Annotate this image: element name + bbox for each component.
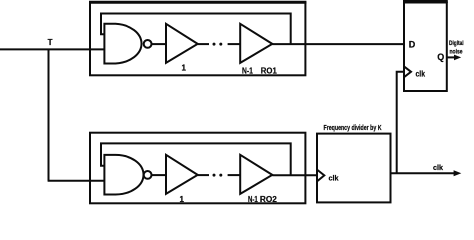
arrow clk output <box>454 170 462 176</box>
nand gate G1 (RO1) <box>104 24 151 64</box>
D flip-flop U1 box <box>403 2 448 92</box>
wire T input <box>0 48 105 50</box>
svg-text:N-1: N-1 <box>242 66 253 75</box>
svg-text:1: 1 <box>182 64 187 73</box>
svg-text:clk: clk <box>416 69 426 78</box>
inverter 1 (RO1) <box>166 24 198 63</box>
flip-flop clk wedge <box>404 66 411 77</box>
wire inverter 1 output (RO2) <box>198 174 209 176</box>
inverter N-1 (RO1) <box>240 24 272 63</box>
wire into inverter N-1 (RO2) <box>228 174 241 176</box>
wire G2 output to inverter 1 <box>152 174 167 176</box>
svg-text:clk: clk <box>329 173 340 182</box>
wire RO2 feedback <box>101 143 291 175</box>
inverter 1 (RO2) <box>166 155 198 194</box>
wire inverter 1 output (RO1) <box>198 43 209 45</box>
svg-text:Frequency divider by K: Frequency divider by K <box>324 125 382 132</box>
wire G1 output to inverter 1 <box>152 43 167 45</box>
dots RO1 chain <box>213 43 223 46</box>
svg-text:D: D <box>409 39 416 49</box>
svg-text:T: T <box>48 38 53 47</box>
wire T branch to RO2 <box>48 180 105 182</box>
dots RO2 chain <box>213 174 223 177</box>
wire into inverter N-1 (RO1) <box>228 43 241 45</box>
svg-text:Digital: Digital <box>449 40 464 47</box>
svg-text:N-1: N-1 <box>248 195 258 204</box>
svg-text:1: 1 <box>180 195 185 204</box>
label Digital noise <box>449 40 464 55</box>
svg-text:clk: clk <box>433 163 444 172</box>
svg-text:Q: Q <box>437 52 444 62</box>
wire RO1 feedback <box>101 14 291 45</box>
wire RO1 output to D <box>272 43 404 45</box>
wire clk stub to flip-flop <box>397 72 404 174</box>
wire RO2 output to divider <box>272 174 317 176</box>
wire divider output <box>390 172 456 174</box>
svg-text:noise: noise <box>450 48 463 55</box>
frequency divider box <box>317 134 391 203</box>
ring oscillator RO1 box <box>89 2 306 75</box>
svg-text:RO1: RO1 <box>261 66 278 75</box>
nand gate G2 (RO2) <box>104 155 151 195</box>
svg-text:RO2: RO2 <box>260 195 278 204</box>
ring oscillator RO2 box <box>90 133 305 204</box>
divider clk input wedge <box>317 170 324 182</box>
arrow Q digital noise output <box>447 55 461 61</box>
wire T branch vertical <box>48 49 50 180</box>
inverter N-1 (RO2) <box>240 155 272 194</box>
